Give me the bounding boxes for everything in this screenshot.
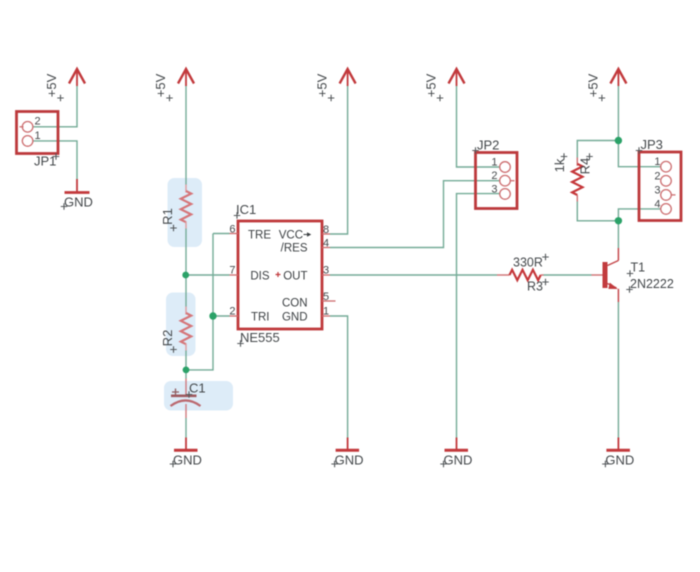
svg-text:2: 2 xyxy=(491,170,497,182)
svg-text:VCC: VCC xyxy=(279,230,303,242)
wire TRE/TRI vertical net xyxy=(213,233,230,235)
wire +5V col5 to top junction xyxy=(617,85,619,141)
svg-text:330R: 330R xyxy=(513,256,543,270)
junction R2/C1 node xyxy=(183,367,190,374)
svg-text:CON: CON xyxy=(282,298,308,310)
highlight R2 xyxy=(166,293,196,357)
power +5V col1 xyxy=(44,69,85,101)
wire emitter to GND xyxy=(617,302,619,438)
svg-text:C1: C1 xyxy=(189,381,206,396)
svg-text:TRI: TRI xyxy=(251,312,270,324)
connector JP1 xyxy=(17,112,60,169)
wire IC pin1 to GND xyxy=(330,316,348,438)
wire top junction to R4 top xyxy=(577,141,618,158)
svg-text:+5V: +5V xyxy=(424,73,439,97)
power +5V col3 xyxy=(315,69,356,101)
svg-text:+5V: +5V xyxy=(153,73,168,97)
power +5V col5 xyxy=(585,69,626,101)
svg-text:IC1: IC1 xyxy=(236,202,256,217)
junction R4 bottom node xyxy=(615,217,622,224)
connector JP3 xyxy=(636,137,681,221)
wire bottom junction to collector xyxy=(617,221,619,248)
ground GND col2 xyxy=(170,438,202,468)
wire R1 bottom to DIS junction xyxy=(185,229,187,276)
svg-text:2: 2 xyxy=(35,116,41,128)
svg-text:GND: GND xyxy=(605,453,634,468)
svg-text:+5V: +5V xyxy=(44,73,59,97)
svg-text:3: 3 xyxy=(491,183,497,195)
wire top junction to JP3 pin1 xyxy=(618,141,660,167)
pin stubs xyxy=(230,234,336,317)
highlight R1 xyxy=(168,178,203,247)
svg-text:OUT: OUT xyxy=(283,271,307,283)
ground GND col4 xyxy=(440,438,472,468)
svg-text:/RES: /RES xyxy=(281,243,308,255)
junction DIS node xyxy=(182,272,189,279)
connector JP2 xyxy=(472,138,517,209)
svg-text:JP1: JP1 xyxy=(34,154,56,169)
wire IC pin8 to +5V xyxy=(330,85,348,234)
wire node to C1 top xyxy=(185,370,187,379)
wire DIS junction to R2 top xyxy=(185,275,187,307)
svg-text:GND: GND xyxy=(444,453,473,468)
svg-text:GND: GND xyxy=(64,195,93,210)
wire +5V col2 to R1 top xyxy=(185,85,187,185)
wire +5V to JP2 pin1 xyxy=(457,86,500,167)
svg-text:GND: GND xyxy=(335,453,364,468)
svg-text:TRE: TRE xyxy=(248,230,271,242)
resistor R2 xyxy=(160,307,191,353)
wire DIS junction to pin7 xyxy=(186,274,230,276)
svg-text:2: 2 xyxy=(654,170,660,182)
wire JP3 pin4 to bottom junction xyxy=(618,209,660,221)
ground GND col3 xyxy=(331,438,363,468)
wire JP1 pin1 to GND xyxy=(33,141,77,179)
svg-text:JP3: JP3 xyxy=(641,137,663,152)
svg-text:R4: R4 xyxy=(578,158,593,175)
op-amp / IC U1 NE555 body xyxy=(229,202,335,347)
svg-text:1k: 1k xyxy=(552,158,567,172)
svg-text:R3: R3 xyxy=(527,280,543,294)
svg-text:1: 1 xyxy=(35,130,41,142)
highlight C1 xyxy=(164,381,233,411)
capacitor C1 xyxy=(171,379,206,419)
transistor Q1 T1 2N2222 xyxy=(592,248,674,302)
svg-text:3: 3 xyxy=(654,184,660,196)
wire R2 bottom to node junction xyxy=(185,351,187,371)
svg-text:1: 1 xyxy=(654,156,660,168)
svg-text:GND: GND xyxy=(173,453,202,468)
wire JP2 pin3 to GND xyxy=(457,194,500,438)
svg-text:R1: R1 xyxy=(160,208,175,225)
svg-text:T1: T1 xyxy=(631,261,646,275)
svg-text:NE555: NE555 xyxy=(240,330,280,345)
wire IC pin4 to JP2 pin2 xyxy=(330,181,500,248)
svg-text:GND: GND xyxy=(282,312,308,324)
wire C1 bottom to GND xyxy=(185,418,187,438)
junction R4 top node xyxy=(615,137,622,144)
svg-text:4: 4 xyxy=(654,198,660,210)
resistor R1 xyxy=(160,185,191,232)
svg-text:DIS: DIS xyxy=(250,271,270,283)
resistor R4 xyxy=(552,153,593,201)
resistor R3 xyxy=(497,254,549,294)
ground GND JP1 xyxy=(61,179,93,210)
wire R3 right to base xyxy=(544,274,592,276)
junction TRI node xyxy=(209,312,216,319)
wire R4 bottom to bottom junction xyxy=(577,202,618,221)
power +5V col4 xyxy=(424,69,465,101)
svg-text:+5V: +5V xyxy=(315,73,330,97)
power +5V col2 xyxy=(153,69,194,101)
wire JP1 pin2 to +5V riser xyxy=(33,86,77,127)
svg-text:JP2: JP2 xyxy=(477,138,499,153)
ground GND col5 xyxy=(602,438,634,468)
svg-text:1: 1 xyxy=(491,157,497,169)
svg-text:R2: R2 xyxy=(160,330,175,347)
svg-text:+5V: +5V xyxy=(585,73,600,97)
svg-text:2N2222: 2N2222 xyxy=(630,277,674,291)
wire IC pin3 OUT to R3 xyxy=(330,274,497,276)
